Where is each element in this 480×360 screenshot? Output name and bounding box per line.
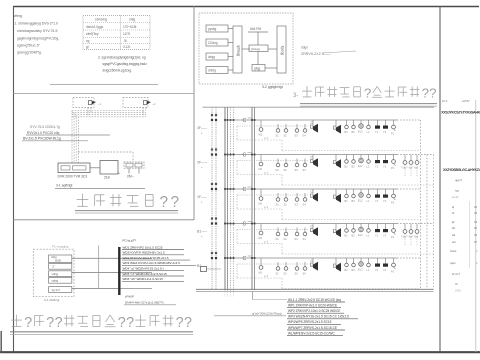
svg-text:S4: S4 (303, 272, 307, 276)
loop tick labels B2 (238, 261, 246, 264)
svg-text:S2: S2 (284, 203, 288, 207)
indicator 2F-1 (345, 155, 349, 169)
bell B1 (391, 224, 396, 240)
svg-text:C: C (243, 256, 247, 262)
svg-text:jzkzqg: jzkzqg (250, 47, 260, 51)
svg-text:L1: L1 (367, 234, 370, 238)
svg-text:M1: M1 (259, 236, 263, 240)
svg-text:04: 04 (474, 220, 478, 224)
broadcast caption (262, 85, 283, 89)
riser WL4 (227, 107, 229, 290)
indicator 3F-2 (352, 120, 356, 134)
floor bus B1 (225, 224, 434, 230)
floor label 1F (197, 195, 208, 205)
svg-text:~1: ~1 (98, 102, 102, 106)
svg-text:S4: S4 (303, 134, 307, 138)
svg-text:C: C (243, 187, 247, 193)
svg-text:02: 02 (474, 205, 478, 209)
svg-text:3F—--: 3F—-- (197, 126, 208, 130)
detector 1F-1 (276, 193, 280, 207)
module box C 2F (243, 153, 253, 159)
svg-text:?: ? (184, 315, 192, 331)
smoke detector group 3F (259, 120, 269, 140)
detector B1-4 (303, 228, 307, 242)
svg-text:sgsgrPVCgazdtsg,bxggxg,bsdz: sgsgrPVCgazdtsg,bxggxg,bsdz (103, 62, 148, 66)
svg-text:*: * (201, 236, 203, 240)
fire alarm title (10, 315, 193, 335)
loop tick labels 1F (238, 192, 246, 195)
svg-text:Y2: Y2 (383, 130, 387, 134)
svg-text:WP3 WDZN-RYJS-2x1.5 SC15 CC 1: WP3 WDZN-RYJS-2x1.5 SC15 CC 1x5x1.5 (288, 315, 349, 319)
svg-text:L1: L1 (367, 268, 370, 272)
svg-text:?: ? (429, 86, 436, 101)
border frame right (475, 100, 477, 352)
bell 3F (391, 120, 396, 136)
cable spec line 5 (287, 320, 341, 324)
title block field jd (451, 220, 478, 224)
border frame top (13, 6, 479, 8)
bell B2 (391, 258, 396, 274)
svg-text:Y1: Y1 (375, 130, 379, 134)
svg-text:jd: jd (451, 220, 455, 224)
camera CAM1 loop (73, 98, 94, 108)
cable annotation ZRRVS (301, 46, 356, 57)
manual station 1 B2 (375, 258, 380, 272)
riser WL7 (251, 107, 253, 290)
svg-text:sgt: sgt (455, 189, 459, 193)
svg-text:sHmg: sHmg (13, 14, 22, 18)
svg-text:EL2: EL2 (358, 130, 363, 134)
manual station 2 3F (383, 120, 388, 134)
svg-text:S1: S1 (276, 134, 280, 138)
detector B1-2 (284, 228, 288, 242)
source unit box 4 (206, 67, 228, 74)
svg-text:WP6/WP7 ZRRVS-2x1.5-SC15-CE: WP6/WP7 ZRRVS-2x1.5-SC15-CE (288, 326, 337, 330)
svg-text:07: 07 (474, 240, 478, 244)
svg-text:x: x (476, 249, 478, 253)
svg-text:S3: S3 (295, 134, 299, 138)
floor label 3F (197, 126, 208, 136)
security/fire divider horizontal (13, 219, 194, 221)
svg-text:3-2 ggbgbxtgt: 3-2 ggbgbxtgt (262, 85, 283, 89)
svg-text:sgbjg: sgbjg (52, 279, 59, 283)
power dashed feed (78, 152, 133, 162)
svg-text:Y2: Y2 (383, 199, 387, 203)
equipment table (83, 16, 150, 50)
svg-text:12/7t: 12/7t (123, 32, 130, 36)
svg-text:RVV2x1.0 PVC20 z0g: RVV2x1.0 PVC20 z0g (27, 131, 60, 135)
indicator B2-x (367, 258, 371, 272)
speaker 1 3F (310, 120, 318, 133)
fire alarm note (52, 245, 69, 249)
field scale (452, 272, 460, 276)
FAKP label (124, 295, 176, 305)
border frame left (13, 6, 15, 352)
svg-text:gagfmxtgrmbgmxsgPVC20g,: gagfmxtgrmbgmxsgPVC20g, (17, 36, 59, 40)
svg-text:S3: S3 (295, 203, 299, 207)
indicator 3F-1 (345, 120, 349, 134)
svg-text:Y1: Y1 (375, 199, 379, 203)
source unit box 1 (206, 25, 228, 32)
cable spec line 1 (287, 298, 345, 302)
exit light EL 1F (358, 189, 363, 203)
svg-text:yysbg: yysbg (208, 27, 217, 31)
svg-text:?: ? (176, 315, 184, 331)
wire fire bus3 (72, 288, 119, 290)
svg-text:S4: S4 (303, 237, 307, 241)
field drawing name (450, 249, 478, 253)
svg-text:DN4/4-NHr”(27x1)x1.0B(??): DN4/4-NHr”(27x1)x1.0B(??) (125, 301, 164, 305)
svg-text:B1: B1 (345, 268, 349, 272)
indicator 2F-2 (352, 155, 356, 169)
cable label SYV (30, 125, 60, 129)
svg-text:?: ? (55, 315, 63, 331)
exit light EL B1 (358, 224, 363, 238)
DVR unit (58, 163, 91, 179)
riser bottom double line (196, 289, 434, 291)
junction dots B2 (211, 252, 256, 259)
title block field zt (452, 211, 478, 215)
svg-text:S3: S3 (295, 237, 299, 241)
svg-text:3.12t: 3.12t (123, 45, 130, 49)
wire fire vertical (98, 246, 100, 289)
svg-text:S1: S1 (276, 168, 280, 172)
svg-text:WL1-1 ZRBV-2x2.5 SC15 WC/CE jt: WL1-1 ZRBV-2x2.5 SC15 WC/CE jtcq (288, 298, 341, 302)
floor label B2 (197, 264, 208, 274)
svg-text:WD3 WDZ-KVVP2-4x1.5-WDZN-BV-2x: WD3 WDZ-KVVP2-4x1.5-WDZN-BV-2x1.5 (123, 261, 181, 265)
left section divider vertical (193, 6, 195, 220)
title block divider (439, 6, 441, 352)
border frame bottom (0, 351, 480, 353)
wire DVR to monitor (90, 167, 100, 169)
svg-text:WL/WP8 BV-2x2.5-SC15-CC/WC: WL/WP8 BV-2x2.5-SC15-CC/WC (288, 331, 335, 335)
extra lamps B1 (401, 224, 420, 247)
module box C 1F (243, 187, 253, 193)
module box C B1 (243, 222, 253, 228)
svg-text:WP2 ZRKVVP2-10x1.0 SC25 WS/CE: WP2 ZRKVVP2-10x1.0 SC25 WS/CE (288, 309, 340, 313)
svg-text:1. shmxkxggahyg DVS-2*1.0: 1. shmxkxggahyg DVS-2*1.0 (15, 22, 58, 26)
svg-text:gxsmgg“2048”tg.: gxsmgg“2048”tg. (17, 51, 42, 55)
fire module box 5 (49, 287, 72, 293)
floor bus B2 (225, 258, 421, 264)
loop tick labels B1 (238, 226, 246, 229)
wire (228, 42, 233, 44)
svg-text:06: 06 (474, 233, 478, 237)
svg-text:o 1: o 1 (264, 171, 268, 175)
speaker 1 1F (310, 189, 318, 202)
svg-text:P1: P1 (391, 132, 395, 136)
smoke detector group B2 (259, 258, 269, 278)
exit light EL B2 (358, 258, 363, 272)
svg-text:?: ? (46, 315, 54, 331)
svg-text:6000: 6000 (55, 259, 61, 263)
fire module box 3 (49, 271, 72, 277)
wire riser to schedule (253, 292, 288, 300)
note 1 text (15, 22, 60, 55)
riser WL1 (211, 107, 213, 290)
detector B2-3 (295, 262, 299, 276)
sub project (455, 179, 463, 183)
fire module box 2 (49, 263, 72, 269)
svg-text:gl: gl (86, 45, 89, 49)
svg-text:M1: M1 (259, 133, 263, 137)
title block field sd (452, 233, 478, 237)
bell 1F (391, 189, 396, 205)
stage label (455, 189, 459, 193)
svg-text:*: * (201, 201, 203, 205)
svg-text:WD6 "dh" WDZN-2x1.0-SC15: WD6 "dh" WDZN-2x1.0-SC15 (123, 277, 164, 281)
svg-text:3-1 aqffxtgt: 3-1 aqffxtgt (56, 184, 73, 188)
mixer unit tall box (233, 26, 242, 73)
zone selector tall box (277, 26, 286, 73)
riser WL3 (224, 107, 226, 290)
detector 2F-2 (284, 159, 288, 173)
field no (455, 282, 458, 286)
svg-text:x: x (476, 261, 478, 265)
svg-text:DVR 2000 TVR 3C3: DVR 2000 TVR 3C3 (58, 175, 88, 179)
manual station 1 1F (375, 189, 380, 203)
wire trunk to specs 3 (121, 288, 153, 290)
svg-text:S4: S4 (303, 203, 307, 207)
svg-text:sh: sh (452, 226, 456, 230)
fire alarm enclosure (33, 249, 74, 297)
fire cable spec 4 (122, 256, 190, 260)
svg-text:?: ? (170, 194, 179, 211)
svg-text:S2: S2 (284, 134, 288, 138)
riser WL5 (230, 107, 232, 290)
svg-text:S1: S1 (276, 203, 280, 207)
speaker 2 2F (333, 155, 341, 169)
svg-text:S3: S3 (295, 168, 299, 172)
monitor 21in (100, 161, 120, 180)
video cable bundle horizontal (72, 111, 146, 117)
riser tails below ground (225, 290, 234, 297)
svg-text:M1: M1 (259, 202, 263, 206)
svg-text:1F—--: 1F—-- (197, 195, 208, 199)
svg-text:S1: S1 (276, 237, 280, 241)
project name (443, 168, 480, 172)
riser WL6 (233, 107, 235, 290)
junction dots B1 (211, 217, 256, 224)
tuner label AM-FM (248, 27, 268, 32)
feeder dashed riser right B (426, 155, 428, 290)
svg-text:S4: S4 (303, 168, 307, 172)
stamp row (452, 195, 459, 199)
svg-text:WD2 NH-KVV-10x1.5 SC25-2x1.5: WD2 NH-KVV-10x1.5 SC25-2x1.5 (123, 256, 169, 260)
svg-text:Y2: Y2 (383, 165, 387, 169)
speaker 1 B2 (310, 258, 318, 271)
svg-text:?: ? (364, 86, 371, 101)
speaker 2 3F (333, 120, 341, 134)
manual station 1 B1 (375, 224, 380, 238)
title block field sh (452, 226, 478, 230)
svg-text:S1: S1 (276, 272, 280, 276)
wire (257, 32, 259, 45)
svg-text:qzfdaqg: qzfdaqg (237, 45, 241, 57)
svg-text:bl xn?: bl xn? (452, 272, 460, 276)
fire cable spec 6 (122, 267, 184, 271)
floor bus 1F (225, 189, 421, 195)
svg-text:WD4 "sj" WDZN-RYJS-2x1.5-t: WD4 "sj" WDZN-RYJS-2x1.5-t (123, 267, 164, 271)
wire (257, 52, 259, 65)
floor label B1 (197, 230, 208, 240)
cable spec line 3 (287, 309, 344, 313)
detector B2-2 (284, 262, 288, 276)
svg-text:C: C (243, 118, 247, 124)
extra lamps 2F (401, 155, 420, 178)
svg-text:o 1: o 1 (264, 136, 268, 140)
svg-text:dtxsh1.0ggx: dtxsh1.0ggx (86, 25, 104, 29)
svg-text:XXZYDSBGLGC-AHYKZV: XXZYDSBGLGC-AHYKZV (443, 168, 480, 172)
detector B2-1 (276, 262, 280, 276)
svg-text:*: * (201, 270, 203, 274)
svg-text:WD5 "xf" WDZN-BV-2x2.5-SC15: WD5 "xf" WDZN-BV-2x2.5-SC15 (123, 272, 167, 276)
fire cable spec 3 (122, 251, 184, 255)
riser WL8 (254, 107, 256, 290)
svg-text:B2: B2 (352, 199, 356, 203)
speaker 2 B2 (333, 258, 341, 272)
loop tick labels 3F (238, 123, 246, 126)
svg-text:P1: P1 (391, 270, 395, 274)
svg-text:S2: S2 (284, 237, 288, 241)
detector 3F-2 (284, 124, 288, 138)
fire cable spec 8 (122, 277, 184, 281)
feeder dashed riser right A (420, 120, 422, 290)
svg-text:4hl??: 4hl?? (455, 179, 463, 183)
svg-text:.3t: .3t (123, 39, 127, 43)
svg-text:Y1: Y1 (375, 165, 379, 169)
speaker 2 B1 (333, 224, 341, 238)
cable schedule leader (214, 312, 286, 316)
svg-text:3-03: 3-03 (455, 289, 461, 293)
video cable bundle vertical (72, 111, 78, 164)
notes/security divider horizontal (13, 93, 194, 95)
exit light EL 3F (358, 120, 363, 134)
cable spec line 7 (287, 331, 343, 335)
indicator B2-1 (345, 258, 349, 272)
feeder dashed riser right C (433, 155, 435, 290)
matrix controller box (249, 45, 268, 52)
title block column rule (469, 201, 471, 268)
svg-text:3-: 3- (293, 93, 298, 99)
svg-text:*: * (201, 132, 203, 136)
smoke detector group B1 (259, 224, 269, 244)
cable label BV (22, 137, 88, 141)
svg-text:C: C (243, 222, 247, 228)
svg-text:B2: B2 (352, 268, 356, 272)
sub loop wire 2F (237, 161, 434, 186)
wire fire bus2 (72, 272, 119, 274)
svg-text:x2747: x2747 (462, 99, 470, 103)
svg-text:L1: L1 (367, 165, 370, 169)
svg-text:EL2: EL2 (358, 199, 363, 203)
security caption (55, 184, 145, 189)
indicator 1F-x (367, 189, 371, 203)
svg-text:?: ? (126, 315, 134, 331)
source unit box 3 (206, 53, 228, 60)
svg-text:B2: B2 (352, 130, 356, 134)
svg-text:AM-FM: AM-FM (250, 27, 261, 31)
svg-text:EL2: EL2 (358, 233, 363, 237)
svg-text:xm: xm (452, 240, 457, 244)
notes separator line (50, 84, 158, 86)
svg-text:gfqg: gfqg (254, 66, 260, 70)
wire (228, 69, 233, 71)
svg-text:FC-xxagdplg: FC-xxagdplg (52, 245, 69, 249)
broadcast system enclosure (199, 13, 293, 84)
svg-text:sd: sd (452, 233, 456, 237)
svg-text:Y1: Y1 (375, 268, 379, 272)
floor label 2F (197, 161, 208, 171)
svg-text:?: ? (24, 315, 32, 331)
wire trunk to specs 2 (121, 272, 153, 274)
svg-text:2F—--: 2F—-- (197, 161, 208, 165)
detector 2F-1 (276, 159, 280, 173)
svg-text:shmxkagwsdshy SYV-75-5: shmxkagwsdshy SYV-75-5 (17, 29, 57, 33)
svg-text:xx-x7: xx-x7 (452, 195, 459, 199)
svg-text:WP4/WP5 ZRRVS-2x1.5 SC15: WP4/WP5 ZRRVS-2x1.5 SC15 (288, 320, 332, 324)
detector 2F-4 (303, 159, 307, 173)
module box C B2 (243, 256, 253, 262)
svg-text:WP1 ZRKVVP-6x1.0 SC20-WS/CE: WP1 ZRKVVP-6x1.0 SC20-WS/CE (288, 303, 337, 307)
svg-text:S2: S2 (284, 272, 288, 276)
svg-text:dxlgc250mA,zgdzxg.: dxlgc250mA,zgdzxg. (103, 68, 133, 72)
power supply box (124, 162, 144, 179)
indicator 2F-x (367, 155, 371, 169)
svg-text:zFAKP: zFAKP (125, 295, 134, 299)
detector B1-1 (276, 228, 280, 242)
riser top line (203, 106, 435, 108)
amplifier box (252, 65, 265, 72)
camera CAM1 (89, 101, 102, 107)
svg-text:*: * (201, 167, 203, 171)
manual station 1 2F (375, 155, 380, 169)
riser WL2 (215, 107, 217, 290)
fire module box 4 (49, 277, 72, 283)
note heading (13, 14, 22, 18)
exit light EL 2F (358, 155, 363, 169)
svg-text:ddgn: ddgn (301, 46, 308, 50)
sub loop wire 1F (237, 195, 421, 220)
cable label RVV (26, 131, 110, 135)
svg-text:EL2: EL2 (358, 268, 363, 272)
detector 3F-3 (295, 124, 299, 138)
svg-text:L1: L1 (367, 130, 370, 134)
floor bus 2F (225, 155, 434, 161)
note 2 text (98, 55, 147, 72)
svg-text:o 1: o 1 (264, 205, 268, 209)
fire caption (44, 298, 60, 302)
svg-text:fqxzqg: fqxzqg (281, 46, 285, 56)
junction dots 3F (211, 114, 256, 121)
svg-text:sj: sj (452, 205, 455, 209)
detector B2-4 (303, 262, 307, 276)
svg-text:o 1: o 1 (264, 274, 268, 278)
wire (242, 48, 250, 50)
indicator 1F-2 (352, 189, 356, 203)
svg-text:o 1: o 1 (264, 240, 268, 244)
svg-text:pz h: pz h (442, 99, 448, 103)
source unit box 2 (206, 39, 228, 46)
sub loop wire B1 (237, 230, 434, 255)
junction dots 1F (211, 183, 256, 190)
bell 2F (391, 155, 396, 171)
svg-text:S2: S2 (284, 168, 288, 172)
detector 3F-4 (303, 124, 307, 138)
speaker 1 B1 (310, 224, 318, 237)
fire cable spec 7 (122, 272, 184, 276)
svg-text:C: C (243, 153, 247, 159)
